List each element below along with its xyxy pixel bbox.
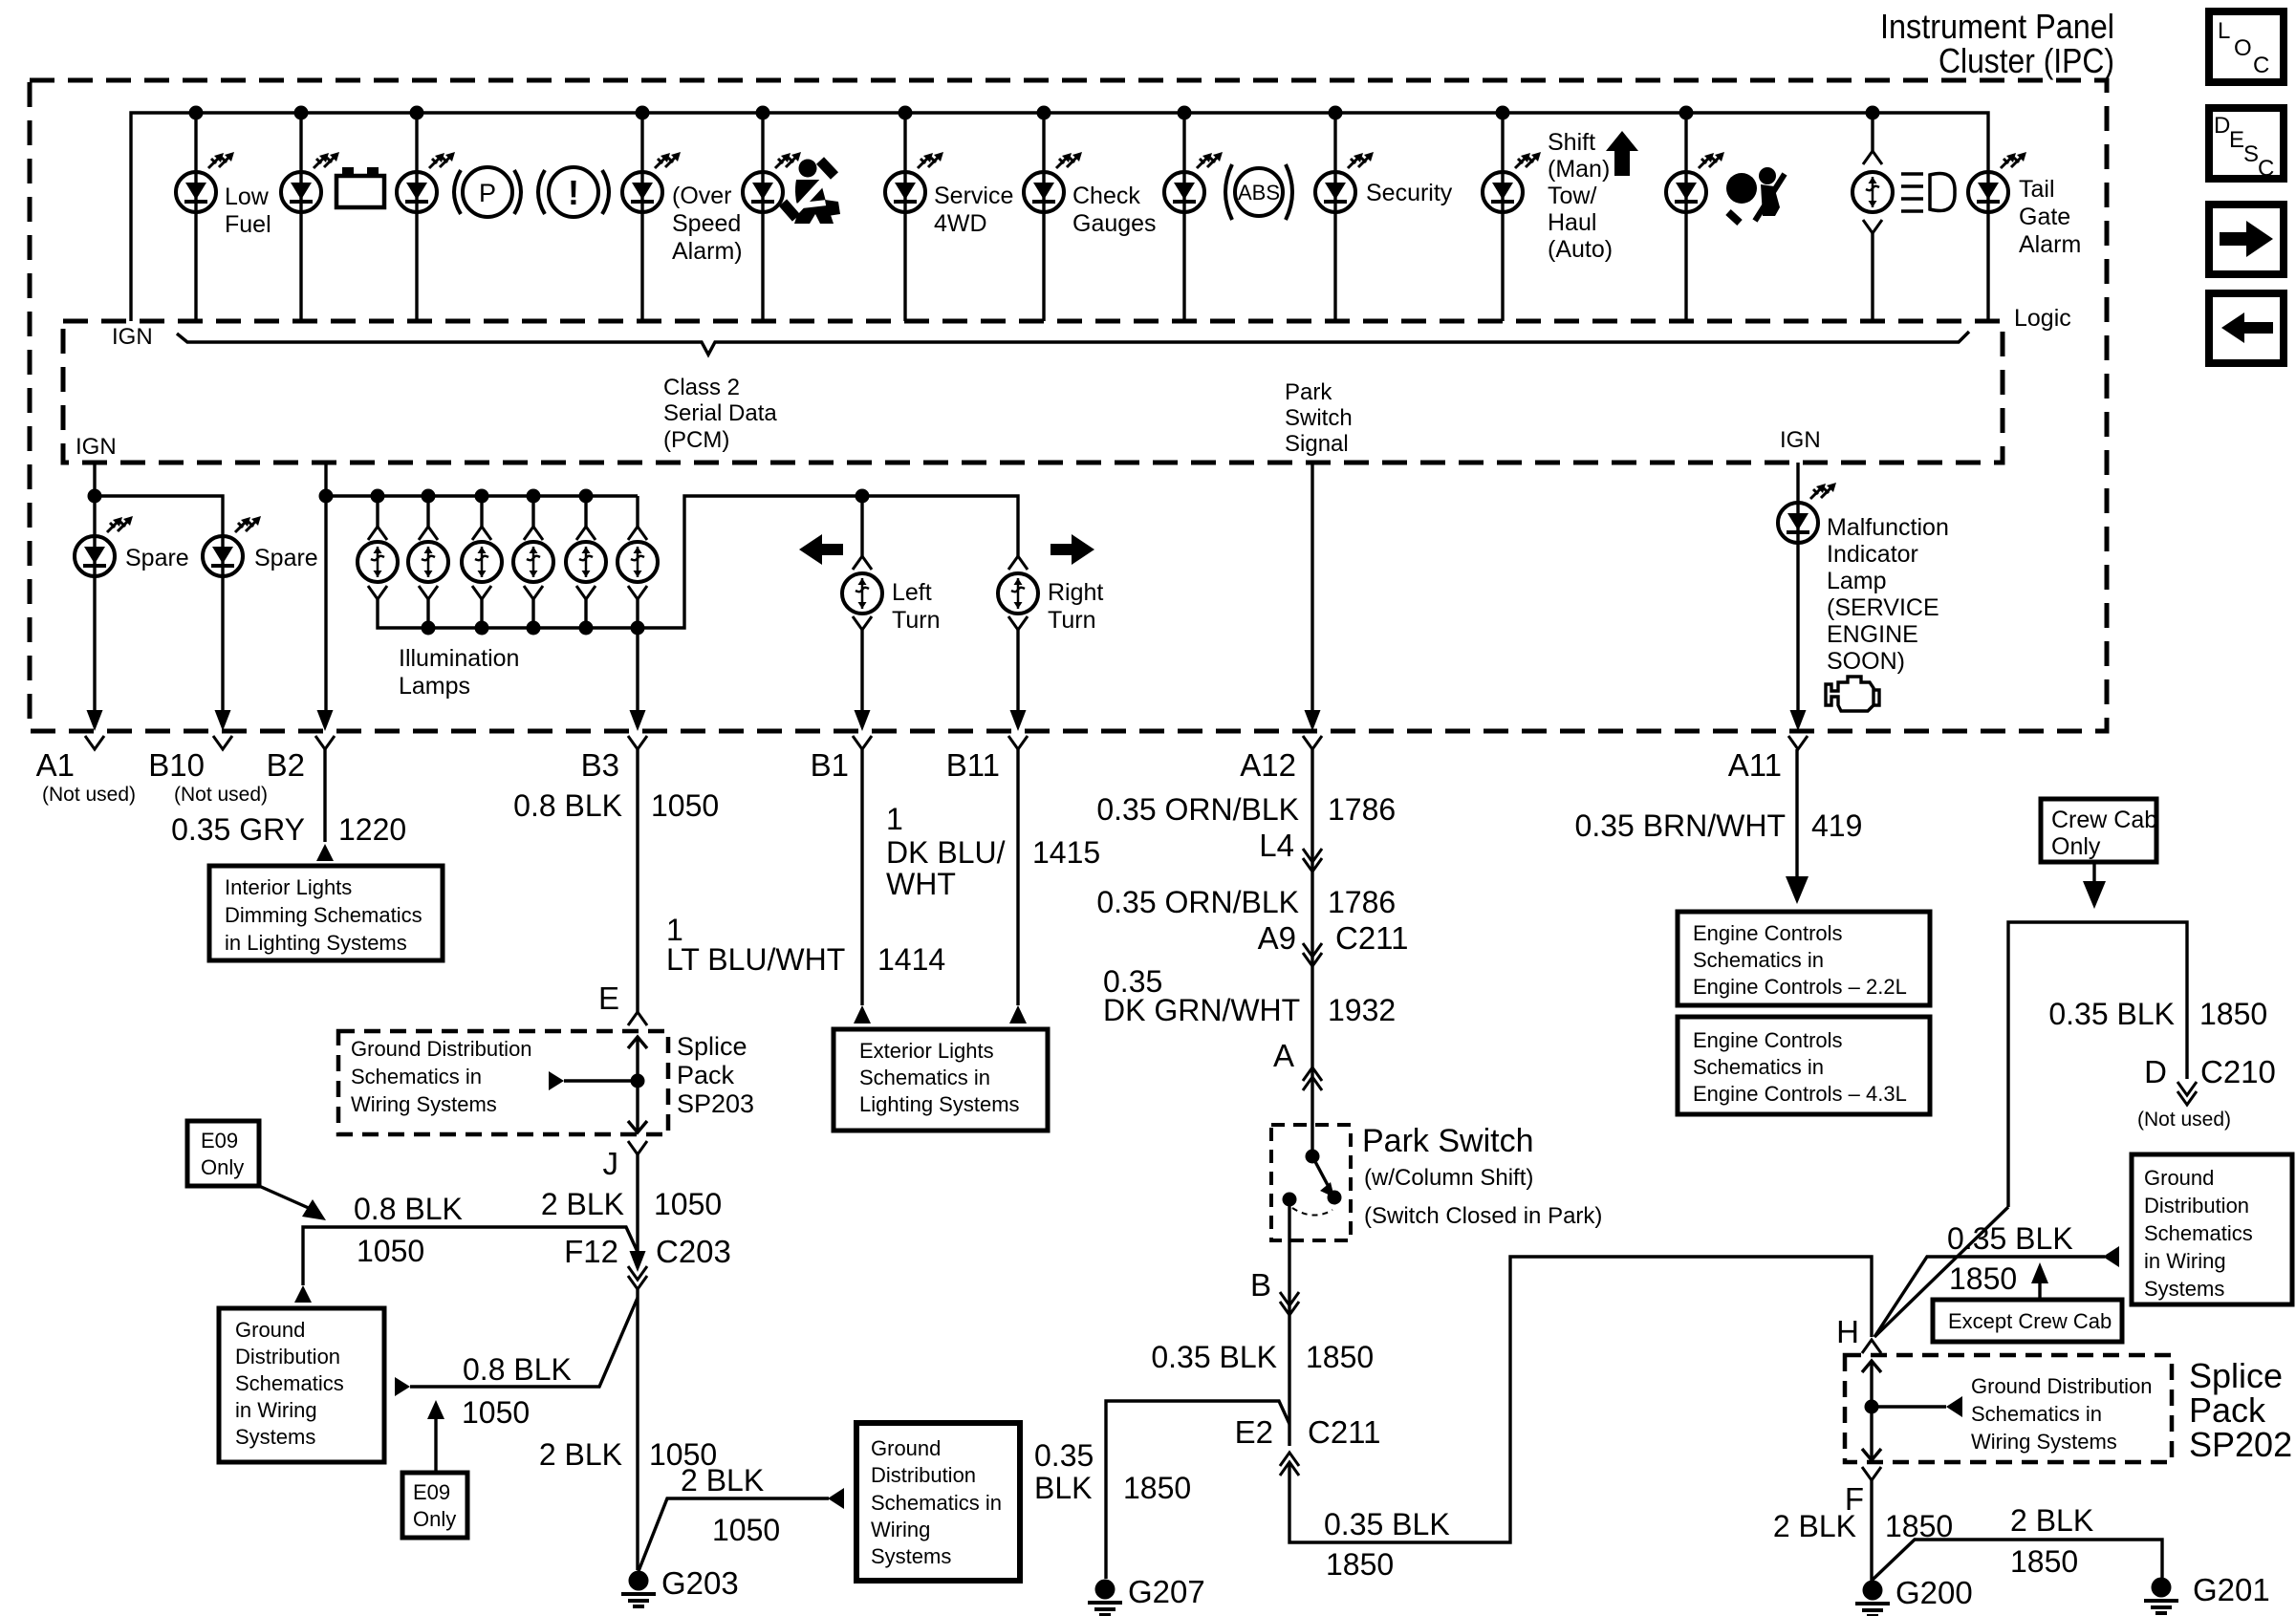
svg-text:1414: 1414 xyxy=(877,942,945,977)
svg-text:0.35 BLK: 0.35 BLK xyxy=(1324,1507,1450,1541)
wire: crew cab diagonal to H xyxy=(1874,1207,2008,1337)
svg-text:Wiring: Wiring xyxy=(871,1518,930,1541)
icon: tow/haul up arrow xyxy=(1606,131,1638,176)
wire: ignition feed bus xyxy=(131,113,1988,321)
svg-text:Only: Only xyxy=(201,1155,244,1179)
wire: A12 to park switch xyxy=(1310,749,1313,1156)
svg-text:A: A xyxy=(1273,1038,1294,1073)
svg-text:F12: F12 xyxy=(564,1234,618,1269)
svg-text:IGN: IGN xyxy=(112,324,153,350)
node: bus junction service 4wd xyxy=(899,106,913,120)
svg-text:Lighting Systems: Lighting Systems xyxy=(859,1092,1020,1116)
lamp: Shift Tow/Haul LED xyxy=(1483,172,1523,212)
wire: branch to ground G207 xyxy=(1106,1401,1289,1579)
svg-text:Indicator: Indicator xyxy=(1827,541,1918,568)
wire: E2 to H xyxy=(1289,1257,1872,1542)
node: spare feed junction xyxy=(88,489,102,504)
svg-text:(Switch Closed in Park): (Switch Closed in Park) xyxy=(1364,1203,1602,1229)
svg-text:Interior Lights: Interior Lights xyxy=(225,875,352,899)
svg-text:Park Switch: Park Switch xyxy=(1362,1123,1534,1159)
svg-text:B: B xyxy=(1250,1267,1271,1303)
svg-text:Distribution: Distribution xyxy=(235,1345,340,1368)
node: bus junction check gauges xyxy=(1037,106,1051,120)
svg-text:Ground Distribution: Ground Distribution xyxy=(351,1037,532,1061)
box: Interior Lights Dimming Schematics xyxy=(209,866,443,960)
illumination lamp 6 xyxy=(617,496,658,636)
flare arrow into ground distribution box xyxy=(294,1285,312,1303)
wire: B2 interior lights dimming drop xyxy=(324,463,327,712)
svg-text:0.35 ORN/BLK: 0.35 ORN/BLK xyxy=(1096,792,1299,827)
node: bus junction Low Fuel xyxy=(189,106,204,120)
svg-text:Wiring Systems: Wiring Systems xyxy=(351,1092,497,1116)
dashed box: park switch xyxy=(1271,1125,1351,1240)
box: Crew Cab Only xyxy=(2041,799,2157,862)
svg-text:Schematics in: Schematics in xyxy=(1693,948,1824,972)
svg-text:4WD: 4WD xyxy=(934,210,987,237)
wire: high beam lamp to logic xyxy=(1871,233,1874,321)
arrow from crew cab box xyxy=(2092,862,2095,881)
svg-text:SP203: SP203 xyxy=(677,1089,754,1118)
svg-text:Gauges: Gauges xyxy=(1072,210,1157,237)
illumination lamp 2 xyxy=(408,489,448,636)
svg-text:Class 2: Class 2 xyxy=(663,375,740,400)
svg-text:DK BLU/: DK BLU/ xyxy=(886,835,1006,870)
svg-text:Serial Data: Serial Data xyxy=(663,400,777,426)
icon: right turn arrow xyxy=(1051,534,1094,565)
svg-text:in Wiring: in Wiring xyxy=(2144,1249,2226,1273)
wire: J to C203 xyxy=(636,1154,639,1255)
wire: H to ground distribution right xyxy=(1874,1257,2105,1337)
lamp: battery warning LED xyxy=(281,172,321,212)
lamp: ABS warning LED xyxy=(1164,172,1204,212)
svg-text:Systems: Systems xyxy=(235,1425,315,1449)
wire: 0.8 BLK 1050 E09 lower branch xyxy=(410,1298,638,1387)
svg-text:1932: 1932 xyxy=(1328,993,1396,1027)
svg-text:Systems: Systems xyxy=(871,1544,951,1568)
wire: 2 BLK 1850 to G201 xyxy=(1873,1540,2162,1580)
svg-text:C211: C211 xyxy=(1308,1414,1380,1450)
svg-text:Speed: Speed xyxy=(672,210,741,237)
svg-text:(Not used): (Not used) xyxy=(174,784,268,806)
svg-text:(Man): (Man) xyxy=(1548,156,1610,183)
svg-text:in Lighting Systems: in Lighting Systems xyxy=(225,931,407,955)
svg-text:IGN: IGN xyxy=(76,434,117,460)
svg-text:E: E xyxy=(598,980,619,1016)
wire: park switch B to E2 xyxy=(1288,1199,1290,1446)
box: E09 Only lower xyxy=(402,1473,467,1538)
svg-text:Spare: Spare xyxy=(125,545,189,571)
illumination lamp 1 xyxy=(357,489,398,600)
arrow into engine controls box xyxy=(1786,876,1809,904)
icon: brake warning (!) symbol xyxy=(538,167,609,217)
right arrow nav box xyxy=(2209,205,2284,274)
connector chevron at H xyxy=(1862,1340,1881,1353)
svg-text:Exterior Lights: Exterior Lights xyxy=(859,1039,994,1063)
wire: IGN drop to spare lamps xyxy=(93,463,96,712)
svg-text:Signal: Signal xyxy=(1285,431,1349,457)
icon: (ABS) symbol xyxy=(1225,164,1292,220)
svg-text:IGN: IGN xyxy=(1780,427,1821,453)
svg-text:J: J xyxy=(603,1146,619,1181)
svg-text:Schematics in: Schematics in xyxy=(1971,1402,2102,1426)
left arrow nav box xyxy=(2209,293,2284,363)
wire: B3 to splice pack xyxy=(636,749,639,1012)
wire: lamp drop security xyxy=(1333,113,1336,321)
svg-text:Engine Controls: Engine Controls xyxy=(1693,1028,1843,1052)
icon: battery symbol xyxy=(336,167,384,207)
lamp: Security LED xyxy=(1315,172,1355,212)
svg-text:BLK: BLK xyxy=(1034,1471,1092,1505)
svg-text:C211: C211 xyxy=(1335,920,1408,956)
lamp: Right Turn bulb xyxy=(998,573,1038,614)
pin A12 xyxy=(1240,710,1322,783)
svg-text:1220: 1220 xyxy=(338,812,406,847)
svg-text:C: C xyxy=(2258,156,2274,182)
lamp: Malfunction Indicator LED xyxy=(1778,503,1818,543)
svg-text:E09: E09 xyxy=(201,1129,238,1153)
svg-text:0.35 GRY: 0.35 GRY xyxy=(171,812,305,847)
wire: right turn to B11 pin xyxy=(1016,630,1019,712)
svg-text:Schematics in: Schematics in xyxy=(871,1491,1002,1515)
connector chevron above right turn lamp xyxy=(1008,556,1028,570)
splice pack SP203 splice symbol xyxy=(549,1037,647,1132)
svg-text:Instrument Panel: Instrument Panel xyxy=(1880,7,2114,46)
wire: 2 BLK 1050 branch to wiring systems xyxy=(639,1498,829,1571)
svg-text:Turn: Turn xyxy=(1048,607,1095,634)
wire: left turn to B1 pin xyxy=(860,630,863,712)
wire: F to ground G200 xyxy=(1870,1480,1873,1582)
connector chevron at J xyxy=(628,1141,647,1154)
svg-text:L4: L4 xyxy=(1259,828,1294,863)
wire: crew cab 0.35 BLK 1850 xyxy=(2008,922,2187,1207)
box: Ground Distribution Schematics left xyxy=(219,1308,384,1462)
svg-text:(SERVICE: (SERVICE xyxy=(1827,594,1939,621)
flare arrow into box xyxy=(828,1488,844,1509)
illumination lamp 4 xyxy=(513,489,553,636)
svg-text:0.35: 0.35 xyxy=(1034,1438,1094,1473)
box: Ground Distribution Schematics middle xyxy=(856,1423,1020,1581)
svg-text:Low: Low xyxy=(225,183,270,210)
svg-text:B11: B11 xyxy=(946,747,1000,783)
arrow from E09 lower box xyxy=(434,1417,437,1473)
svg-text:(Over: (Over xyxy=(672,183,732,209)
svg-text:Cluster (IPC): Cluster (IPC) xyxy=(1939,41,2114,80)
svg-text:Alarm: Alarm xyxy=(2019,231,2081,258)
wire: B2 to interior lights dimming xyxy=(323,749,326,842)
svg-text:E09: E09 xyxy=(413,1480,450,1504)
wire: lamp drop battery xyxy=(299,113,302,321)
node: bus junction security xyxy=(1329,106,1343,120)
svg-text:Ground: Ground xyxy=(235,1318,305,1342)
box: Except Crew Cab xyxy=(1933,1300,2122,1342)
LOC box xyxy=(2209,11,2284,82)
svg-text:2 BLK: 2 BLK xyxy=(681,1463,764,1497)
svg-text:Lamps: Lamps xyxy=(399,673,470,700)
svg-text:SP202: SP202 xyxy=(2189,1425,2292,1464)
wire: park switch signal drop A12 xyxy=(1310,463,1313,712)
connector chevron above left turn lamp xyxy=(853,556,872,570)
svg-text:1050: 1050 xyxy=(654,1187,722,1221)
wire: lamp drop brake xyxy=(415,113,418,321)
svg-text:Schematics in: Schematics in xyxy=(351,1065,482,1088)
svg-text:B2: B2 xyxy=(267,747,305,783)
svg-text:ABS: ABS xyxy=(1238,181,1280,205)
connector chevron below right turn lamp xyxy=(1008,616,1028,630)
svg-text:Distribution: Distribution xyxy=(2144,1194,2249,1217)
svg-text:Dimming Schematics: Dimming Schematics xyxy=(225,903,422,927)
svg-text:G200: G200 xyxy=(1895,1575,1973,1610)
Instrument Panel Cluster (IPC) title xyxy=(1880,7,2114,80)
connector chevron at F xyxy=(1862,1467,1881,1480)
svg-text:1050: 1050 xyxy=(462,1395,530,1430)
svg-text:Schematics: Schematics xyxy=(235,1371,344,1395)
node: bus junction battery xyxy=(294,106,309,120)
box: Ground Distribution Schematics right xyxy=(2132,1154,2292,1304)
svg-text:A11: A11 xyxy=(1728,747,1782,783)
svg-text:1050: 1050 xyxy=(651,788,719,823)
lamp: Left Turn bulb xyxy=(842,573,882,614)
svg-text:1050: 1050 xyxy=(357,1234,424,1268)
svg-text:LT BLU/WHT: LT BLU/WHT xyxy=(666,942,845,977)
wire: lamp drop seat belt xyxy=(761,113,764,321)
dashed box: splice pack SP202 xyxy=(1845,1355,2172,1462)
svg-text:419: 419 xyxy=(1811,808,1862,843)
svg-text:E: E xyxy=(2229,127,2244,153)
wire: lamp drop high beam xyxy=(1871,113,1874,151)
svg-text:(Auto): (Auto) xyxy=(1548,236,1613,263)
svg-text:Crew Cab: Crew Cab xyxy=(2051,807,2157,833)
wire: A11 to engine controls xyxy=(1795,749,1798,879)
svg-text:1786: 1786 xyxy=(1328,792,1396,827)
lamp: Check Gauges LED xyxy=(1024,172,1064,212)
wire: lamp drop service 4wd xyxy=(903,113,906,321)
svg-text:DK GRN/WHT: DK GRN/WHT xyxy=(1103,993,1300,1027)
svg-text:2 BLK: 2 BLK xyxy=(2010,1503,2093,1538)
svg-text:WHT: WHT xyxy=(886,867,956,901)
wire: branch to second spare lamp xyxy=(95,496,223,712)
svg-text:G201: G201 xyxy=(2193,1572,2270,1607)
svg-text:P: P xyxy=(479,179,496,207)
svg-text:B3: B3 xyxy=(581,747,619,783)
IPC outer dashed box xyxy=(30,80,2107,731)
icon: left turn arrow xyxy=(799,534,843,565)
box: Exterior Lights Schematics xyxy=(834,1029,1048,1131)
svg-text:Illumination: Illumination xyxy=(399,645,519,672)
wire: B3 drop from illumination return xyxy=(636,628,639,712)
svg-text:2 BLK: 2 BLK xyxy=(539,1437,622,1472)
wire: lamp drop check gauges xyxy=(1042,113,1045,321)
node: bus junction airbag xyxy=(1679,106,1694,120)
flare arrow at left end xyxy=(395,1377,410,1396)
svg-text:D: D xyxy=(2214,113,2230,139)
icon: park brake (P) symbol xyxy=(454,167,521,217)
flare arrow into interior lights box xyxy=(316,844,334,861)
svg-text:1: 1 xyxy=(886,802,903,836)
svg-text:C: C xyxy=(2253,53,2269,78)
dashed box: ground distribution reference at SP203 xyxy=(338,1031,668,1134)
node: bus junction ABS xyxy=(1178,106,1192,120)
svg-text:0.35 ORN/BLK: 0.35 ORN/BLK xyxy=(1096,885,1299,919)
wire: lamp drop over speed xyxy=(640,113,643,321)
pin A11 xyxy=(1728,710,1808,783)
lamp: Service 4WD LED xyxy=(885,172,925,212)
wire: 0.8 BLK 1050 E09 branch xyxy=(303,1227,638,1285)
svg-text:1850: 1850 xyxy=(1949,1261,2017,1296)
svg-text:Shift: Shift xyxy=(1548,129,1595,156)
wire: B11 to exterior lights box xyxy=(1016,749,1019,1005)
pin B1 xyxy=(811,710,872,783)
ground G201 xyxy=(2144,1578,2178,1614)
svg-text:2 BLK: 2 BLK xyxy=(541,1187,624,1221)
icon: service engine soon engine xyxy=(1826,677,1879,711)
park switch contacts and blade xyxy=(1283,1150,1342,1216)
wire: C203 to ground G203 xyxy=(636,1289,639,1570)
svg-text:Malfunction: Malfunction xyxy=(1827,514,1949,541)
svg-text:G203: G203 xyxy=(661,1565,739,1601)
svg-text:0.35 BRN/WHT: 0.35 BRN/WHT xyxy=(1575,808,1786,843)
svg-text:Splice: Splice xyxy=(677,1032,747,1061)
splice pack SP202 splice symbol xyxy=(1862,1361,1962,1460)
svg-text:1850: 1850 xyxy=(1306,1340,1374,1374)
svg-text:H: H xyxy=(1836,1314,1859,1349)
svg-text:Ground: Ground xyxy=(2144,1166,2214,1190)
svg-text:Spare: Spare xyxy=(254,545,318,571)
svg-text:in Wiring: in Wiring xyxy=(235,1398,317,1422)
wire: left turn drop xyxy=(860,496,863,556)
wire: Class 2 Serial Data line xyxy=(177,332,1969,355)
illumination lamp 3 xyxy=(462,489,502,636)
lamp: Tail Gate Alarm LED xyxy=(1968,172,2008,212)
node: bus junction over speed xyxy=(636,106,650,120)
ground G200 xyxy=(1855,1581,1890,1616)
svg-text:B10: B10 xyxy=(148,747,205,783)
lamp: high beam indicator bulb xyxy=(1852,172,1893,212)
svg-text:Engine Controls – 2.2L: Engine Controls – 2.2L xyxy=(1693,975,1907,999)
node: bus junction brake xyxy=(410,106,424,120)
lamp: seat belt reminder LED xyxy=(743,172,783,212)
svg-text:(Not used): (Not used) xyxy=(2137,1109,2231,1131)
lamp: Low Fuel indicator LED xyxy=(176,172,216,212)
svg-text:Haul: Haul xyxy=(1548,209,1596,236)
ground G203 xyxy=(621,1571,656,1607)
svg-text:Ground: Ground xyxy=(871,1436,941,1460)
svg-text:0.8 BLK: 0.8 BLK xyxy=(463,1352,572,1387)
svg-text:B1: B1 xyxy=(811,747,849,783)
svg-text:Splice: Splice xyxy=(2189,1356,2283,1395)
connector chevron above high beam lamp xyxy=(1863,151,1882,164)
svg-text:Ground Distribution: Ground Distribution xyxy=(1971,1374,2153,1398)
DESC box xyxy=(2209,108,2284,182)
svg-text:Schematics in: Schematics in xyxy=(1693,1055,1824,1079)
svg-text:Distribution: Distribution xyxy=(871,1463,976,1487)
connector chevron below left turn lamp xyxy=(853,616,872,630)
svg-text:SOON): SOON) xyxy=(1827,648,1905,675)
svg-text:Lamp: Lamp xyxy=(1827,568,1887,594)
svg-text:Gate: Gate xyxy=(2019,204,2070,230)
svg-text:Turn: Turn xyxy=(892,607,940,634)
svg-text:O: O xyxy=(2234,35,2252,61)
svg-text:Pack: Pack xyxy=(677,1061,735,1089)
wire: lamp drop airbag xyxy=(1684,113,1687,321)
flare arrow into exterior lights box B11 xyxy=(1009,1005,1027,1023)
svg-text:2 BLK: 2 BLK xyxy=(1773,1509,1856,1543)
ground G207 xyxy=(1088,1580,1122,1616)
box: Engine Controls Schematics 2.2L xyxy=(1678,912,1930,1005)
box: Engine Controls Schematics 4.3L xyxy=(1678,1017,1930,1114)
leader arrow from E09 box xyxy=(259,1186,311,1209)
svg-text:C203: C203 xyxy=(656,1234,731,1269)
svg-text:D: D xyxy=(2144,1054,2167,1089)
svg-text:Service: Service xyxy=(934,183,1013,209)
node: bus junction high beam xyxy=(1866,106,1880,120)
svg-text:Park: Park xyxy=(1285,379,1332,405)
svg-text:0.35 BLK: 0.35 BLK xyxy=(1947,1221,2073,1256)
node: bus junction shift xyxy=(1496,106,1510,120)
svg-text:L: L xyxy=(2218,18,2230,44)
svg-text:Fuel: Fuel xyxy=(225,211,271,238)
svg-text:0.35 BLK: 0.35 BLK xyxy=(2048,997,2175,1031)
pin B10 (not used) xyxy=(148,710,268,806)
connector chevron at E xyxy=(628,1012,647,1025)
svg-text:1415: 1415 xyxy=(1032,835,1100,870)
node: illumination bus tap on B2 wire xyxy=(319,489,334,504)
svg-text:Only: Only xyxy=(413,1507,456,1531)
wire: B1 to exterior lights box xyxy=(860,749,863,1005)
svg-text:!: ! xyxy=(568,173,579,212)
svg-text:0.8 BLK: 0.8 BLK xyxy=(354,1192,463,1226)
icon: headlamp beam symbol xyxy=(1901,173,1955,211)
illumination lamp 5 xyxy=(566,489,606,636)
lamp: Spare LED 1 xyxy=(75,536,115,576)
svg-text:(Not used): (Not used) xyxy=(42,784,136,806)
svg-text:Systems: Systems xyxy=(2144,1277,2224,1301)
pin B11 xyxy=(946,710,1028,783)
wire: lamp drop shift xyxy=(1501,113,1504,321)
pin B3 xyxy=(581,710,647,783)
lamp: airbag warning LED xyxy=(1666,172,1706,212)
svg-text:G207: G207 xyxy=(1128,1574,1205,1609)
logic inner dashed box xyxy=(63,321,2003,463)
wire: lamp drop tail gate xyxy=(1986,172,1989,321)
svg-text:A9: A9 xyxy=(1258,920,1296,956)
icon: seat belt symbol xyxy=(783,160,840,225)
pin B2 xyxy=(267,710,335,783)
wire: MIL drop A11 xyxy=(1796,463,1799,712)
node: bus junction seat belt xyxy=(756,106,770,120)
svg-text:1850: 1850 xyxy=(1326,1547,1394,1582)
svg-text:1850: 1850 xyxy=(1123,1471,1191,1505)
svg-text:Engine Controls: Engine Controls xyxy=(1693,921,1843,945)
svg-text:ENGINE: ENGINE xyxy=(1827,621,1918,648)
svg-text:Pack: Pack xyxy=(2189,1390,2266,1430)
arrow from except crew cab box xyxy=(2038,1283,2041,1300)
svg-text:1050: 1050 xyxy=(712,1513,780,1547)
svg-text:Switch: Switch xyxy=(1285,405,1353,431)
svg-text:0.35 BLK: 0.35 BLK xyxy=(1151,1340,1277,1374)
svg-text:Schematics: Schematics xyxy=(2144,1221,2253,1245)
wire: lamp drop ABS xyxy=(1182,113,1185,321)
lamp: brake warning LED xyxy=(397,172,437,212)
svg-text:Schematics in: Schematics in xyxy=(859,1066,990,1089)
svg-text:1786: 1786 xyxy=(1328,885,1396,919)
svg-text:Check: Check xyxy=(1072,183,1140,209)
svg-text:Left: Left xyxy=(892,579,932,606)
svg-text:E2: E2 xyxy=(1235,1414,1273,1450)
svg-text:Except Crew Cab: Except Crew Cab xyxy=(1948,1309,2112,1333)
svg-text:1850: 1850 xyxy=(2010,1544,2078,1579)
svg-text:S: S xyxy=(2243,141,2259,167)
wire: lamp drop Low Fuel xyxy=(194,113,197,321)
